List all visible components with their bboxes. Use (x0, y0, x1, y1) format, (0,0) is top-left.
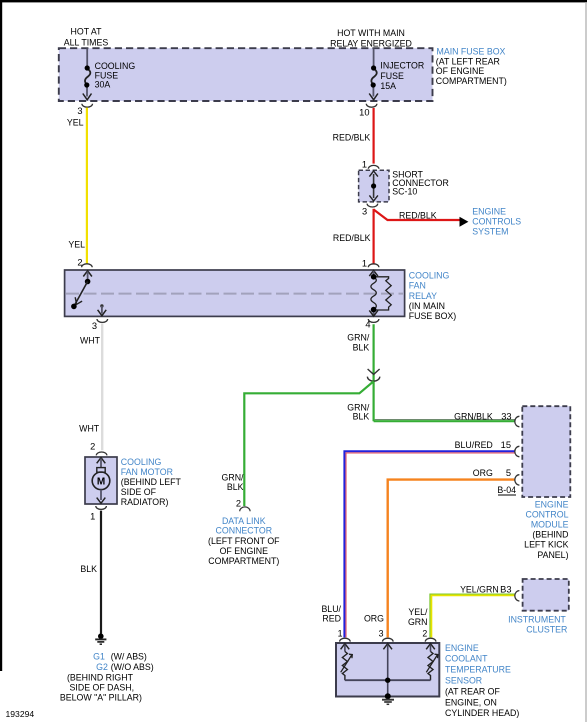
svg-text:LEFT KICK: LEFT KICK (524, 540, 568, 550)
svg-text:BLK: BLK (353, 342, 370, 352)
svg-text:SC-10: SC-10 (392, 187, 417, 197)
connector pin 3 below relay (92, 319, 108, 331)
sensor internals: pin 3 line (383, 644, 392, 697)
label GRN/BLK below relay (347, 333, 370, 353)
svg-text:RED/BLK: RED/BLK (333, 233, 371, 243)
connector pin 1 below motor (90, 506, 106, 521)
label ENGINE COOLANT TEMPERATURE SENSOR (445, 643, 519, 718)
svg-text:SENSOR: SENSOR (445, 676, 482, 686)
svg-text:M: M (97, 477, 105, 488)
cooling fan motor M1 (85, 457, 117, 504)
short connector SC-10 (359, 170, 389, 202)
svg-text:3: 3 (362, 207, 367, 217)
svg-text:COOLING: COOLING (409, 270, 450, 280)
labels BLU/RED ORG YEL/GRN above sensor (321, 604, 428, 627)
svg-text:15A: 15A (380, 81, 396, 91)
svg-text:HOT WITH MAIN: HOT WITH MAIN (337, 28, 405, 38)
svg-text:10: 10 (359, 107, 369, 117)
arrowhead to engine controls system (460, 217, 469, 227)
connector pin 3 under cooling fuse (77, 104, 92, 116)
svg-text:CLUSTER: CLUSTER (526, 625, 567, 635)
svg-text:COMPARTMENT): COMPARTMENT) (208, 556, 279, 566)
wire RED/BLK short connector to relay (373, 209, 375, 265)
svg-text:RED: RED (322, 614, 341, 624)
wire BLK motor to ground (100, 511, 102, 634)
svg-text:ORG: ORG (364, 614, 384, 624)
svg-text:SYSTEM: SYSTEM (472, 227, 508, 237)
svg-text:INSTRUMENT: INSTRUMENT (508, 614, 566, 624)
label ORG 5 (473, 468, 511, 478)
wire GRN/BLK branch to data link connector (244, 381, 373, 506)
instrument cluster box (523, 579, 569, 611)
label HOT AT ALL TIMES (64, 27, 109, 48)
wire RED/BLK branch to engine controls system (374, 210, 460, 221)
label ENGINE CONTROLS SYSTEM (472, 206, 521, 236)
sensor internal bus (345, 679, 431, 681)
svg-text:BLK: BLK (80, 564, 97, 574)
svg-text:SIDE OF DASH,: SIDE OF DASH, (70, 682, 135, 692)
svg-text:YEL/GRN: YEL/GRN (460, 584, 499, 594)
svg-text:1: 1 (362, 160, 367, 170)
svg-text:ALL TIMES: ALL TIMES (64, 37, 109, 47)
svg-text:RADIATOR): RADIATOR) (121, 497, 169, 507)
svg-text:SIDE OF: SIDE OF (121, 487, 157, 497)
svg-text:BLU/: BLU/ (321, 604, 341, 614)
svg-text:FUSE BOX): FUSE BOX) (409, 311, 456, 321)
svg-text:RELAY ENERGIZED: RELAY ENERGIZED (330, 38, 412, 48)
svg-text:FAN MOTOR: FAN MOTOR (121, 467, 173, 477)
svg-text:CONTROL: CONTROL (525, 510, 568, 520)
svg-text:3: 3 (379, 629, 384, 639)
connector pin 2 above relay (77, 258, 92, 268)
svg-text:COOLING: COOLING (121, 457, 162, 467)
svg-text:ENGINE: ENGINE (535, 499, 569, 509)
svg-text:FAN: FAN (409, 281, 426, 291)
label SHORT CONNECTOR SC-10 (392, 169, 449, 196)
sensor internals: pin 1 thermistor (341, 644, 353, 681)
wire WHT relay to motor (101, 323, 103, 450)
svg-text:YEL/: YEL/ (408, 607, 428, 617)
cooling fuse (83, 49, 92, 100)
page border left (0, 0, 2, 671)
svg-text:(W/ ABS): (W/ ABS) (111, 651, 147, 661)
svg-text:GRN/BLK: GRN/BLK (454, 411, 493, 421)
svg-text:B-04: B-04 (497, 485, 516, 495)
svg-text:15: 15 (501, 440, 511, 450)
svg-text:ENGINE, ON: ENGINE, ON (445, 697, 497, 707)
svg-text:3: 3 (92, 321, 97, 331)
svg-text:1: 1 (338, 629, 343, 639)
svg-text:(BEHIND: (BEHIND (532, 530, 568, 540)
connector pin 1 above short connector (362, 160, 379, 170)
svg-text:YEL: YEL (67, 118, 84, 128)
label INJECTOR FUSE 15A (380, 61, 424, 91)
svg-text:WHT: WHT (80, 336, 101, 346)
svg-text:33: 33 (501, 411, 511, 421)
connector pin 2 above motor (90, 441, 107, 455)
svg-text:RED/BLK: RED/BLK (333, 132, 371, 142)
svg-text:2: 2 (422, 629, 427, 639)
wire GRN/BLK to ECM pin 33 (374, 420, 515, 422)
page border top (0, 0, 587, 2)
svg-text:2: 2 (90, 441, 95, 451)
svg-text:CONNECTOR: CONNECTOR (216, 526, 273, 536)
svg-text:(AT REAR OF: (AT REAR OF (445, 686, 501, 696)
connector pin 10 under injector fuse (359, 104, 377, 118)
svg-text:(LEFT FRONT OF: (LEFT FRONT OF (208, 536, 280, 546)
sensor pin cups (340, 638, 436, 641)
svg-text:PANEL): PANEL) (537, 550, 568, 560)
svg-text:193294: 193294 (6, 709, 35, 719)
svg-text:MAIN FUSE BOX: MAIN FUSE BOX (437, 47, 506, 57)
sensor pin numbers 1 3 2 (338, 629, 428, 639)
svg-text:TEMPERATURE: TEMPERATURE (445, 665, 511, 675)
svg-text:BELOW "A" PILLAR): BELOW "A" PILLAR) (60, 693, 142, 703)
label B-04 (497, 485, 516, 495)
svg-text:2: 2 (236, 499, 241, 509)
svg-text:BLK: BLK (353, 412, 370, 422)
label COOLING FUSE 30A (95, 61, 136, 90)
svg-text:(BEHIND RIGHT: (BEHIND RIGHT (67, 672, 134, 682)
connector pin 4 below relay (365, 319, 379, 330)
cluster connector cup (515, 591, 520, 601)
connector pin 3 below short connector (362, 204, 378, 217)
svg-text:FUSE: FUSE (380, 71, 404, 81)
main fuse box (59, 48, 433, 101)
label COOLING FAN RELAY (409, 270, 456, 321)
svg-text:1: 1 (362, 259, 367, 269)
page border right (585, 2, 586, 722)
svg-text:30A: 30A (95, 80, 111, 90)
label G1 G2 ground (60, 651, 154, 702)
svg-text:OF ENGINE: OF ENGINE (436, 66, 485, 76)
connector pin 1 above relay (362, 259, 379, 269)
relay coil (369, 271, 391, 317)
inline connector on green wire (367, 369, 379, 381)
svg-text:G2: G2 (96, 662, 108, 672)
wire YEL/GRN sensor to cluster (430, 594, 515, 637)
sensor ground (382, 693, 394, 704)
label ENGINE CONTROL MODULE (524, 499, 568, 560)
svg-text:3: 3 (77, 106, 82, 116)
label GRN/BLK at junction (347, 402, 370, 421)
svg-text:GRN: GRN (408, 617, 428, 627)
svg-text:GRN/: GRN/ (347, 333, 370, 343)
label MAIN FUSE BOX (436, 47, 507, 86)
connector pin 2 of data link connector (236, 499, 250, 512)
svg-text:G1: G1 (93, 651, 105, 661)
svg-text:4: 4 (365, 320, 370, 330)
wire BLU/RED ECM to sensor (344, 451, 514, 637)
ECM box (522, 406, 570, 497)
label GRN/BLK 33 (454, 411, 511, 421)
svg-text:INJECTOR: INJECTOR (380, 61, 424, 71)
svg-text:CONTROLS: CONTROLS (472, 217, 521, 227)
label GRN/BLK near DLC (222, 472, 245, 492)
svg-text:5: 5 (506, 468, 511, 478)
junction node in sensor (385, 678, 390, 683)
engine coolant temperature sensor box (336, 643, 439, 697)
svg-text:1: 1 (90, 511, 95, 521)
svg-text:(W/O ABS): (W/O ABS) (111, 662, 154, 672)
label BLU/RED 15 (455, 440, 511, 450)
wire YEL fuse to relay (86, 108, 88, 264)
ECM connector cups (515, 416, 520, 485)
label COOLING FAN MOTOR (121, 457, 182, 507)
svg-text:2: 2 (77, 258, 82, 268)
svg-text:(IN MAIN: (IN MAIN (409, 301, 445, 311)
svg-text:RED/BLK: RED/BLK (399, 210, 437, 220)
ground G1/G2 (95, 633, 106, 644)
relay switch (71, 271, 92, 310)
svg-text:(BEHIND LEFT: (BEHIND LEFT (121, 477, 182, 487)
svg-text:MODULE: MODULE (531, 520, 569, 530)
relay switch pin 3 stub (98, 304, 107, 315)
label INSTRUMENT CLUSTER (508, 614, 567, 634)
wire GRN/BLK relay to junction (373, 324, 375, 421)
svg-text:DATA LINK: DATA LINK (222, 516, 266, 526)
sensor internals: pin 2 thermistor (426, 644, 438, 681)
svg-text:B3: B3 (500, 584, 511, 594)
svg-text:BLK: BLK (227, 482, 244, 492)
svg-text:ENGINE: ENGINE (445, 643, 479, 653)
svg-text:COOLANT: COOLANT (445, 654, 488, 664)
svg-text:HOT AT: HOT AT (71, 27, 103, 37)
cooling fan relay box (65, 270, 405, 316)
label HOT WITH MAIN RELAY ENERGIZED (330, 28, 412, 48)
svg-text:YEL: YEL (68, 239, 85, 249)
svg-text:COMPARTMENT): COMPARTMENT) (436, 76, 507, 86)
svg-text:WHT: WHT (79, 423, 100, 433)
label YEL/GRN B3 (460, 584, 511, 594)
relay internal dashed line (66, 293, 403, 295)
injector fuse (369, 49, 378, 100)
svg-text:RELAY: RELAY (409, 291, 437, 301)
svg-text:ENGINE: ENGINE (472, 206, 506, 216)
label DATA LINK CONNECTOR (208, 516, 280, 566)
svg-text:(AT LEFT REAR: (AT LEFT REAR (436, 57, 500, 67)
svg-text:GRN/: GRN/ (222, 472, 245, 482)
svg-text:CYLINDER HEAD): CYLINDER HEAD) (445, 708, 519, 718)
svg-text:ORG: ORG (473, 468, 493, 478)
svg-text:OF ENGINE: OF ENGINE (220, 546, 269, 556)
wire RED/BLK fuse to short connector (373, 108, 375, 164)
svg-text:BLU/RED: BLU/RED (455, 440, 493, 450)
wire ORG ECM to sensor (388, 480, 515, 638)
